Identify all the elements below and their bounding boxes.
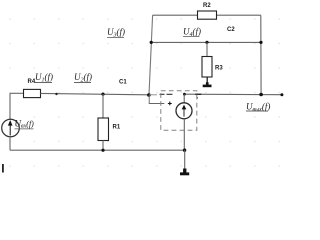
node: junction bottom rail / ground stem: [183, 149, 186, 152]
wire: R1 lead from main wire to box: [102, 94, 104, 118]
svg-text:R2: R2: [203, 3, 211, 9]
resistor R2: [198, 11, 217, 19]
wire: main horizontal y=93.5 from left corner to R4: [10, 92, 24, 94]
svg-text:U1(f): U1(f): [35, 72, 53, 84]
node: junction right vertical / output wire: [259, 93, 263, 97]
node: junction right vertical / second rail: [259, 41, 262, 44]
svg-text:C1: C1: [119, 80, 127, 86]
resistor R3: [202, 57, 212, 78]
wire: top rail y=15 from R2 to right vertical: [217, 14, 261, 16]
wire: left source riser x=10 from main wire to circle: [9, 93, 11, 119]
svg-text:U3(f): U3(f): [107, 27, 125, 39]
source U input circle: [2, 119, 20, 137]
resistor R1: [98, 118, 109, 141]
wire: main horizontal from R4 to C1 junction: [41, 93, 150, 94]
wire: R1 lead from box to bottom rail: [102, 141, 104, 151]
arrow in dependent source: [183, 106, 185, 117]
node: junction left vertical / second rail: [150, 41, 153, 44]
wire: bottom rail y=150.3: [10, 149, 185, 151]
wire: source top lead up to output wire: [183, 94, 185, 103]
dashed box around dependent source: [161, 91, 197, 131]
wire: second rail y=42.3: [151, 41, 261, 43]
wire: top rail y=15 from left vertical to R2: [153, 14, 198, 16]
ground under R3: [203, 85, 212, 88]
dependent source circle: [176, 103, 192, 119]
node: small dot on wire: [55, 93, 57, 95]
wire: left source lower lead to bottom rail: [9, 137, 11, 151]
wire: control L-wire from C1 node into dashed box: [149, 95, 164, 104]
wire: ground stem: [184, 150, 186, 169]
svg-text:U2(f): U2(f): [74, 72, 92, 84]
wire: R3 lead from box to ground: [206, 77, 208, 85]
stray tick bottom-left: [2, 164, 4, 173]
node: junction source top lead / output wire: [183, 93, 186, 96]
node: junction R3 top / second rail: [205, 41, 208, 44]
node C1 junction: [147, 93, 151, 97]
wire: dark segment on output wire below R3 ground: [195, 93, 201, 95]
svg-text:R1: R1: [113, 125, 121, 131]
svg-text:C2: C2: [227, 27, 235, 33]
svg-text:R3: R3: [215, 66, 223, 72]
node: open output terminal: [280, 93, 283, 96]
resistor R4: [24, 89, 41, 97]
ground at bottom: [180, 172, 189, 175]
wire: R3 lead from second rail to box: [206, 42, 208, 56]
node: junction R1 / main wire: [101, 93, 104, 96]
wire: left vertical x=152 from top rail down to main wire: [149, 15, 153, 94]
arrow in left source: [9, 124, 11, 136]
plus sign: [168, 102, 172, 106]
wire: output horizontal y=94 from source junction to open end: [149, 94, 157, 96]
wire: source bottom lead down to bottom rail: [183, 119, 185, 150]
node: junction R1 / bottom rail: [101, 149, 104, 152]
wire: right vertical x=261 from top rail down to output wire: [260, 15, 262, 94]
